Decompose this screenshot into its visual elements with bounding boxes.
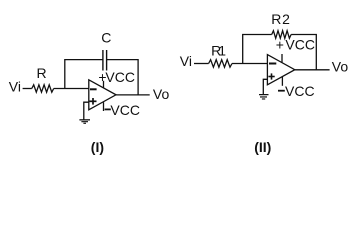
capacitor C bbox=[103, 50, 107, 71]
svg-text:Vo: Vo bbox=[153, 86, 170, 102]
wire Vi to resistor R1 bbox=[194, 63, 209, 65]
svg-text:VCC: VCC bbox=[110, 102, 140, 118]
svg-text:Vi: Vi bbox=[180, 53, 192, 69]
svg-text:R2: R2 bbox=[271, 11, 291, 27]
wire R to inverting input (node A) bbox=[54, 88, 89, 90]
wire output (circuit I) bbox=[116, 94, 150, 96]
label +VCC (circuit I) bbox=[98, 69, 135, 85]
label -VCC (circuit I) bbox=[105, 102, 140, 118]
op-amp U2 inverting input marker bbox=[269, 63, 276, 65]
svg-text:VCC: VCC bbox=[105, 69, 135, 85]
svg-text:(II): (II) bbox=[254, 139, 271, 155]
op-amp U1 +VCC pin bbox=[103, 81, 105, 88]
op-amp U2 +VCC pin bbox=[281, 54, 283, 62]
resistor R1 bbox=[209, 60, 232, 67]
svg-text:VCC: VCC bbox=[285, 83, 315, 99]
svg-text:Vo: Vo bbox=[332, 59, 349, 75]
svg-text:R: R bbox=[37, 65, 47, 81]
svg-text:C: C bbox=[101, 30, 111, 46]
op-amp U1 inverting input marker bbox=[90, 88, 97, 90]
svg-text:+: + bbox=[276, 37, 284, 53]
label +VCC (circuit II) bbox=[276, 37, 315, 53]
node Vi (circuit I) bbox=[9, 78, 21, 94]
label -VCC (circuit II) bbox=[278, 83, 315, 99]
op-amp U2 non-inverting input marker bbox=[268, 73, 274, 79]
ground (circuit II) bbox=[259, 94, 269, 100]
resistor R bbox=[32, 85, 54, 92]
svg-text:1: 1 bbox=[218, 43, 226, 59]
caption (I) bbox=[91, 139, 104, 155]
svg-text:VCC: VCC bbox=[285, 37, 315, 53]
wire feedback left leg up to capacitor bbox=[65, 60, 103, 89]
wire feedback left leg up to R2 (circuit II) bbox=[243, 35, 272, 64]
svg-text:(I): (I) bbox=[91, 139, 104, 155]
label R2 bbox=[271, 11, 291, 27]
wire R2 to feedback right leg down to output (circuit II) bbox=[291, 35, 316, 70]
op-amp U1 non-inverting input marker bbox=[90, 98, 97, 105]
op-amp U2 -VCC pin bbox=[281, 77, 283, 86]
wire capacitor to feedback right leg down to output bbox=[107, 60, 139, 95]
op-amp U1 -VCC pin bbox=[103, 102, 105, 111]
node Vo (circuit II) bbox=[332, 59, 349, 75]
wire non-inverting input to ground riser (circuit II) bbox=[263, 79, 267, 94]
label C bbox=[101, 30, 111, 46]
wire Vi to resistor R bbox=[23, 88, 32, 90]
op-amp U1 (circuit I) bbox=[89, 80, 116, 110]
label R bbox=[37, 65, 47, 81]
caption (II) bbox=[254, 139, 271, 155]
wire output (circuit II) bbox=[295, 69, 330, 71]
node Vi (circuit II) bbox=[180, 53, 192, 69]
op-amp U2 (circuit II) bbox=[267, 55, 294, 85]
ground (circuit I) bbox=[79, 119, 90, 124]
label R1 bbox=[211, 43, 226, 59]
wire non-inverting input to ground riser bbox=[84, 102, 89, 119]
svg-text:Vi: Vi bbox=[9, 78, 21, 94]
node Vo (circuit I) bbox=[153, 86, 170, 102]
wire R1 to inverting input (node B) bbox=[232, 63, 267, 65]
resistor R2 bbox=[272, 31, 291, 39]
